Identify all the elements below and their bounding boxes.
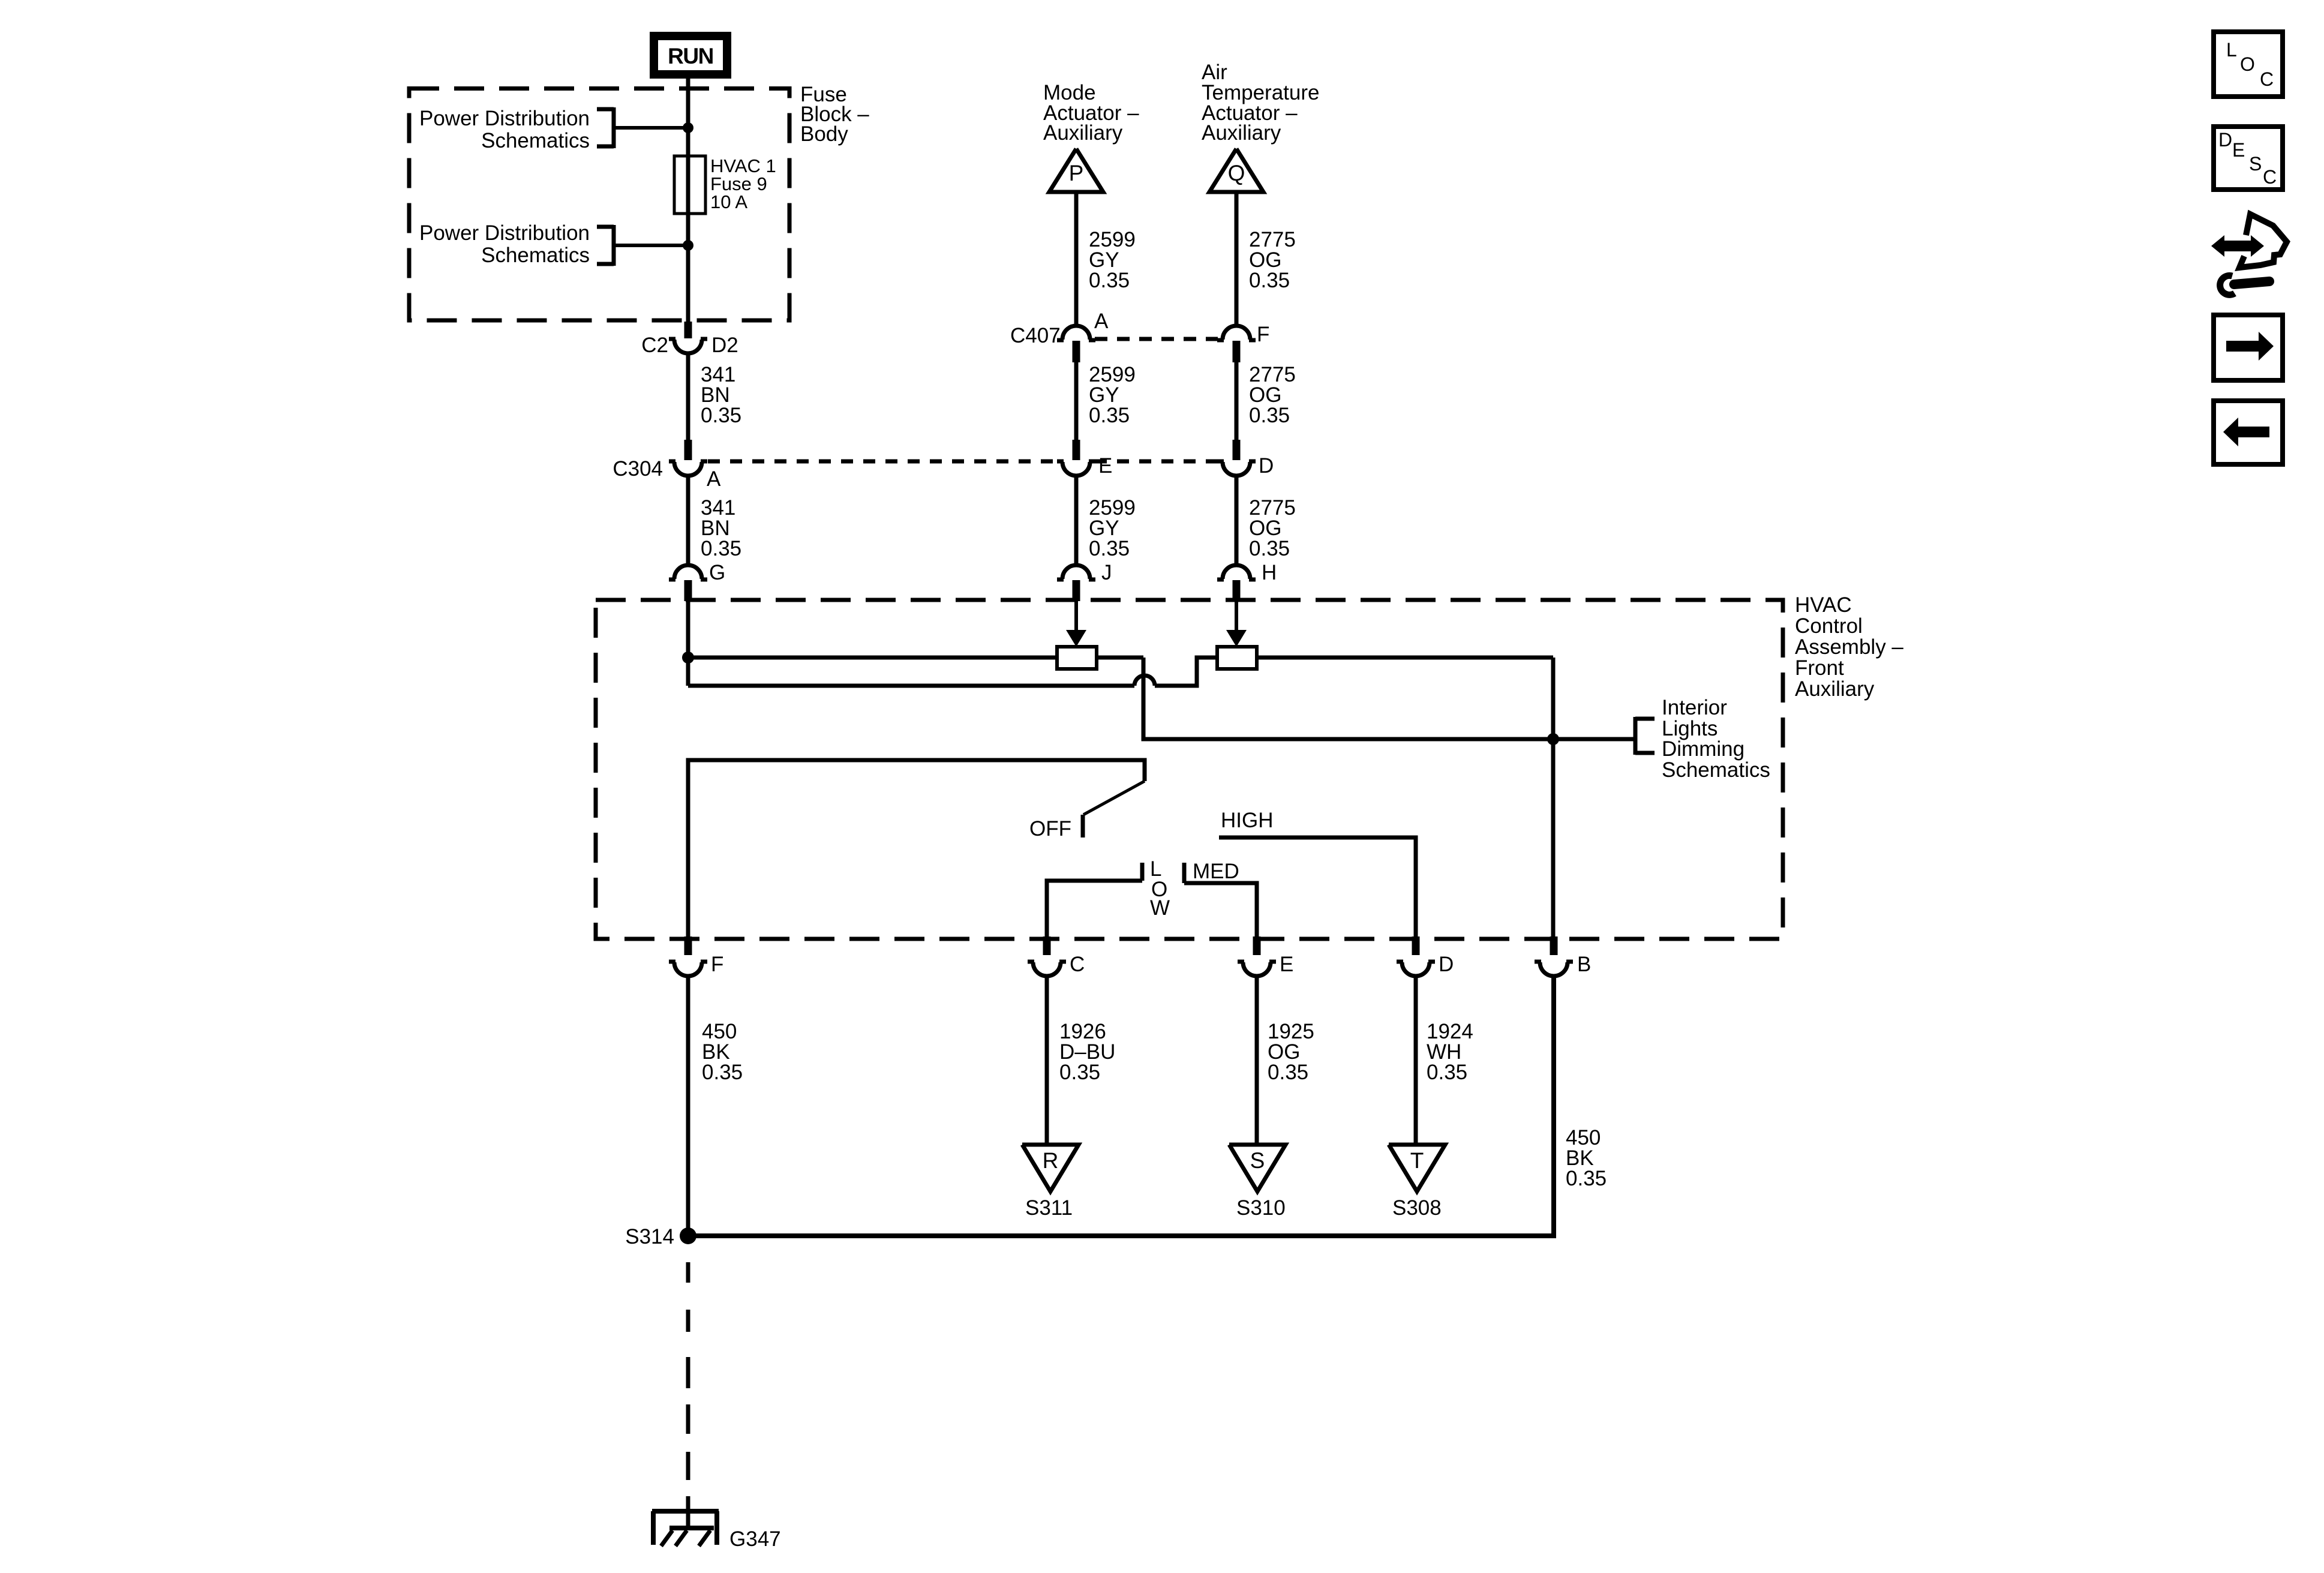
svg-text:10 A: 10 A — [710, 191, 747, 212]
wire 341 BN to HVAC G — [686, 476, 690, 565]
wire from mode resistor — [1097, 656, 1143, 660]
OFF contact stub — [1081, 815, 1085, 837]
ground G347 — [652, 1509, 719, 1514]
svg-text:S314: S314 — [625, 1225, 674, 1248]
wire RUN to fuse block — [686, 76, 690, 324]
svg-text:C: C — [2260, 68, 2274, 90]
svg-text:Control: Control — [1795, 614, 1863, 638]
svg-text:0.35: 0.35 — [1249, 537, 1290, 560]
svg-text:S: S — [2249, 153, 2262, 175]
connector C304 pin A — [674, 462, 702, 476]
svg-text:RUN: RUN — [668, 44, 713, 68]
stub HVAC pin C — [1043, 936, 1051, 955]
connector HVAC pin H — [1223, 565, 1250, 579]
connector C407 body (dashed) — [1095, 337, 1218, 341]
node: power distribution tap 1 — [683, 122, 693, 133]
stub above C304 E — [1073, 440, 1080, 460]
stub pin G — [684, 580, 692, 601]
connector HVAC pin J — [1062, 565, 1090, 579]
LOW contact wire to pin C — [1140, 863, 1145, 881]
node: power distribution tap 2 — [683, 240, 693, 251]
junction G wire / resistor feed — [682, 652, 694, 664]
svg-text:Assembly –: Assembly – — [1795, 635, 1903, 659]
icon LOC button — [2214, 32, 2283, 97]
svg-text:J: J — [1101, 561, 1112, 584]
svg-text:S308: S308 — [1392, 1196, 1442, 1220]
svg-text:C407: C407 — [1010, 324, 1061, 347]
svg-text:A: A — [1094, 310, 1109, 333]
svg-text:0.35: 0.35 — [702, 1061, 743, 1084]
connector HVAC pin D — [1402, 962, 1430, 976]
wire to interior lights dimming — [1553, 737, 1634, 742]
svg-text:G: G — [709, 561, 725, 584]
svg-text:W: W — [1150, 896, 1170, 920]
svg-text:E: E — [1098, 454, 1112, 478]
svg-text:0.35: 0.35 — [701, 404, 741, 427]
svg-text:G347: G347 — [729, 1527, 781, 1551]
junction dimming feed — [1547, 733, 1559, 745]
svg-text:Auxiliary: Auxiliary — [1202, 121, 1281, 145]
svg-text:B: B — [1577, 953, 1591, 976]
stub HVAC pin E — [1253, 936, 1261, 955]
wire mode resistor to dimming junction — [1143, 658, 1553, 739]
svg-text:0.35: 0.35 — [1427, 1061, 1467, 1084]
svg-text:C304: C304 — [612, 457, 663, 481]
svg-text:A: A — [707, 467, 721, 491]
svg-text:0.35: 0.35 — [1059, 1061, 1100, 1084]
svg-text:L: L — [2226, 39, 2237, 61]
wire 341 BN — [686, 353, 690, 440]
ignition switch RUN terminal box — [654, 36, 727, 74]
wire 1926 D-BU — [1045, 977, 1049, 1145]
splice S310 — [1229, 1145, 1286, 1191]
arrow into air temp resistor — [1235, 601, 1238, 632]
svg-text:MED: MED — [1193, 860, 1239, 883]
svg-text:Power Distribution: Power Distribution — [419, 107, 590, 130]
svg-text:R: R — [1043, 1148, 1059, 1173]
connector HVAC pin G — [674, 565, 702, 579]
fuse block body dashed box — [409, 89, 789, 321]
stub pin H — [1233, 580, 1241, 601]
wire 2775 OG to HVAC H — [1235, 476, 1239, 565]
svg-text:OFF: OFF — [1029, 817, 1071, 840]
connector HVAC pin E — [1243, 962, 1271, 976]
svg-text:S: S — [1250, 1148, 1265, 1173]
wire 450 BK from F — [686, 977, 690, 1236]
svg-text:0.35: 0.35 — [1089, 537, 1130, 560]
wire tap 2 — [614, 244, 688, 247]
fuse HVAC 1 Fuse 9 10 A — [674, 156, 705, 214]
lower feed wire — [688, 684, 1134, 688]
wire hop over vertical — [1134, 676, 1155, 686]
svg-text:0.35: 0.35 — [1268, 1061, 1308, 1084]
wire 2775 OG from Q — [1235, 192, 1239, 325]
HVAC control assembly dashed box — [596, 600, 1783, 939]
svg-text:0.35: 0.35 — [1089, 404, 1130, 427]
wire 1925 OG — [1255, 977, 1259, 1145]
stub HVAC pin D — [1412, 936, 1420, 955]
wire 2599 GY from P — [1074, 192, 1079, 325]
blower switch common wire (from pin F) — [688, 760, 1145, 936]
svg-text:F: F — [711, 953, 723, 976]
connector C407 pin F — [1223, 326, 1250, 340]
svg-text:Dimming: Dimming — [1662, 737, 1744, 761]
connector HVAC pin C — [1033, 962, 1061, 976]
connector C304 pin D — [1223, 462, 1250, 476]
svg-text:Auxiliary: Auxiliary — [1795, 677, 1875, 701]
svg-text:0.35: 0.35 — [1089, 269, 1130, 292]
icon back arrow button — [2214, 401, 2283, 464]
svg-text:C: C — [2263, 166, 2277, 188]
svg-text:Schematics: Schematics — [481, 244, 590, 267]
svg-text:0.35: 0.35 — [1249, 269, 1290, 292]
triangle connector Q (air temp actuator) — [1209, 149, 1263, 192]
wire tap 1 — [614, 126, 688, 130]
wire G into box — [686, 601, 690, 686]
connector C2/D2 — [674, 340, 702, 353]
svg-text:P: P — [1069, 161, 1084, 185]
splice S314 — [680, 1227, 696, 1244]
stub above C304 A — [684, 440, 692, 460]
stub above C304 D — [1233, 440, 1241, 460]
svg-text:Schematics: Schematics — [481, 129, 590, 152]
arrow into mode resistor — [1074, 601, 1078, 632]
switch blade to OFF — [1083, 781, 1145, 815]
svg-text:0.35: 0.35 — [1566, 1167, 1607, 1190]
potentiometer (mode) — [1057, 647, 1097, 669]
svg-text:C2: C2 — [641, 334, 668, 357]
splice S308 — [1389, 1145, 1445, 1191]
svg-text:Interior: Interior — [1662, 696, 1727, 719]
wire 2599 GY to C304 — [1074, 362, 1079, 440]
stub pin J — [1073, 580, 1080, 601]
wire to air temp resistor — [1155, 658, 1217, 686]
icon DESC button — [2214, 127, 2283, 190]
connector C304 body dashed A-E — [708, 460, 1058, 464]
wire down to pin B — [1551, 658, 1556, 936]
potentiometer (air temp) — [1217, 647, 1257, 669]
MED contact wire to pin E — [1182, 863, 1187, 883]
svg-text:0.35: 0.35 — [701, 537, 741, 560]
svg-text:D2: D2 — [711, 334, 738, 357]
svg-text:Q: Q — [1228, 161, 1245, 185]
splice S311 — [1022, 1145, 1079, 1191]
svg-text:E: E — [2232, 139, 2245, 161]
wire 2599 GY to HVAC J — [1074, 476, 1079, 565]
connector C304 body dashed E-D — [1095, 460, 1218, 464]
connector HVAC pin F — [674, 962, 702, 976]
svg-text:HVAC: HVAC — [1795, 593, 1852, 617]
svg-text:HIGH: HIGH — [1221, 809, 1274, 832]
svg-text:Front: Front — [1795, 656, 1844, 680]
wire 1924 WH — [1414, 977, 1418, 1145]
svg-text:D: D — [1259, 454, 1274, 478]
svg-text:E: E — [1280, 953, 1293, 976]
wire from air temp resistor — [1257, 656, 1553, 660]
svg-text:H: H — [1262, 561, 1277, 584]
svg-text:Body: Body — [800, 122, 848, 146]
wire to mode resistor — [688, 656, 1057, 660]
stub HVAC pin B — [1550, 936, 1558, 955]
stub below C407 A — [1073, 341, 1080, 362]
wire 2775 OG to C304 — [1235, 362, 1239, 440]
svg-text:Schematics: Schematics — [1662, 758, 1770, 782]
svg-text:Auxiliary: Auxiliary — [1043, 121, 1123, 145]
connector C304 pin E — [1062, 462, 1090, 476]
svg-text:Power Distribution: Power Distribution — [419, 221, 590, 245]
svg-text:0.35: 0.35 — [1249, 404, 1290, 427]
icon diagnostic wrench — [2211, 235, 2264, 257]
connector C407 pin A — [1062, 326, 1090, 340]
svg-text:S310: S310 — [1236, 1196, 1286, 1220]
svg-text:O: O — [2240, 53, 2255, 75]
dashed wire S314 to G347 — [686, 1262, 690, 1283]
wire 450 BK from B to S314 — [688, 977, 1554, 1236]
svg-text:D: D — [2218, 129, 2232, 151]
svg-text:F: F — [1257, 323, 1269, 346]
stub at C2 — [684, 322, 692, 338]
svg-text:C: C — [1070, 953, 1085, 976]
triangle connector P (mode actuator) — [1049, 149, 1103, 192]
svg-text:S311: S311 — [1025, 1196, 1073, 1220]
interior lights dimming bracket — [1635, 717, 1655, 721]
wire into ground — [686, 1496, 690, 1529]
stub HVAC pin F — [684, 936, 692, 955]
svg-text:D: D — [1439, 953, 1454, 976]
icon next arrow button — [2214, 315, 2283, 380]
connector HVAC pin B — [1540, 962, 1568, 976]
stub below C407 F — [1233, 341, 1241, 362]
svg-text:T: T — [1410, 1148, 1424, 1173]
